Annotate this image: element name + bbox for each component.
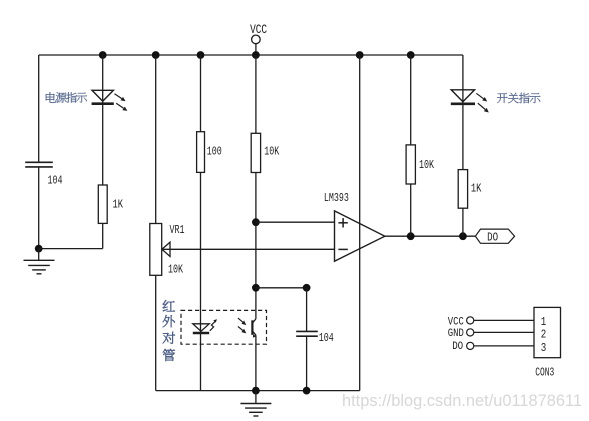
svg-text:10K: 10K	[419, 158, 435, 172]
svg-text:VCC: VCC	[250, 22, 267, 37]
wire switch-LED column	[462, 55, 464, 236]
node: cap junction	[252, 284, 260, 292]
wire to C2	[256, 287, 307, 289]
junction dots on VCC rail	[99, 51, 415, 59]
svg-text:VCC: VCC	[448, 316, 464, 328]
ground rail (bottom wire)	[156, 390, 360, 392]
label 红外对管	[163, 300, 175, 361]
wire CON3 leads	[474, 320, 534, 346]
wire minus input from VR1 wiper	[162, 248, 335, 250]
resistor 1K (right)	[458, 170, 482, 209]
node: plus-input junction	[252, 218, 260, 226]
svg-text:10K: 10K	[168, 263, 184, 277]
ground (bottom)	[240, 391, 271, 416]
svg-text:DO: DO	[487, 230, 498, 244]
resistor 1K (left)	[98, 185, 123, 223]
capacitor C2 104	[296, 288, 334, 391]
svg-text:2: 2	[541, 327, 547, 341]
svg-text:10K: 10K	[264, 145, 280, 159]
op-amp U1 LM393	[324, 191, 385, 261]
svg-text:GND: GND	[448, 328, 464, 340]
svg-text:100: 100	[207, 145, 222, 159]
svg-text:DO: DO	[452, 341, 463, 353]
IR LED emitter	[193, 319, 217, 333]
power rail VCC (top horizontal wire)	[39, 54, 463, 56]
label 电源指示	[46, 92, 87, 103]
LED D1 power indicator	[92, 90, 128, 111]
svg-text:LM393: LM393	[324, 191, 349, 205]
svg-text:104: 104	[319, 331, 334, 345]
capacitor C1 104	[25, 162, 62, 187]
node: ground junction dot left	[35, 245, 43, 253]
node: C2 corner dot	[303, 284, 311, 292]
wire 10K column	[255, 55, 257, 391]
resistor 10K (right)	[406, 145, 434, 184]
label 开关指示	[497, 93, 540, 103]
svg-text:1K: 1K	[471, 182, 482, 196]
svg-text:104: 104	[48, 174, 63, 188]
potentiometer VR1 10K	[150, 223, 185, 277]
wire op-amp plus input	[256, 221, 335, 223]
svg-text:CON3: CON3	[535, 365, 554, 379]
wire right 10K column	[410, 55, 412, 236]
ground (left)	[24, 249, 55, 274]
svg-text:3: 3	[541, 341, 547, 355]
wire 100-ohm column	[200, 55, 202, 391]
IR pair dashed box	[181, 310, 267, 344]
phototransistor	[238, 318, 257, 338]
connector CON3 terminals	[467, 317, 474, 350]
resistor 10K (left)	[251, 133, 280, 172]
svg-text:1K: 1K	[113, 198, 124, 212]
connector CON3 body	[534, 307, 561, 379]
VCC terminal	[250, 22, 267, 59]
output flag DO	[475, 229, 514, 244]
svg-text:https://blog.csdn.net/u0118786: https://blog.csdn.net/u011878611	[342, 392, 582, 410]
wire left branch down	[38, 55, 40, 249]
wire op-amp supply column	[359, 55, 361, 391]
wire VR1 column	[155, 55, 157, 391]
LED D2 switch indicator	[451, 90, 489, 113]
svg-text:VR1: VR1	[170, 223, 185, 237]
wire op-amp output	[385, 235, 476, 237]
wire LED column	[39, 55, 103, 249]
connector CON3 pin labels	[448, 316, 464, 353]
node: output dots	[407, 232, 467, 240]
resistor 100	[197, 132, 222, 173]
node: bottom dots	[252, 387, 311, 395]
